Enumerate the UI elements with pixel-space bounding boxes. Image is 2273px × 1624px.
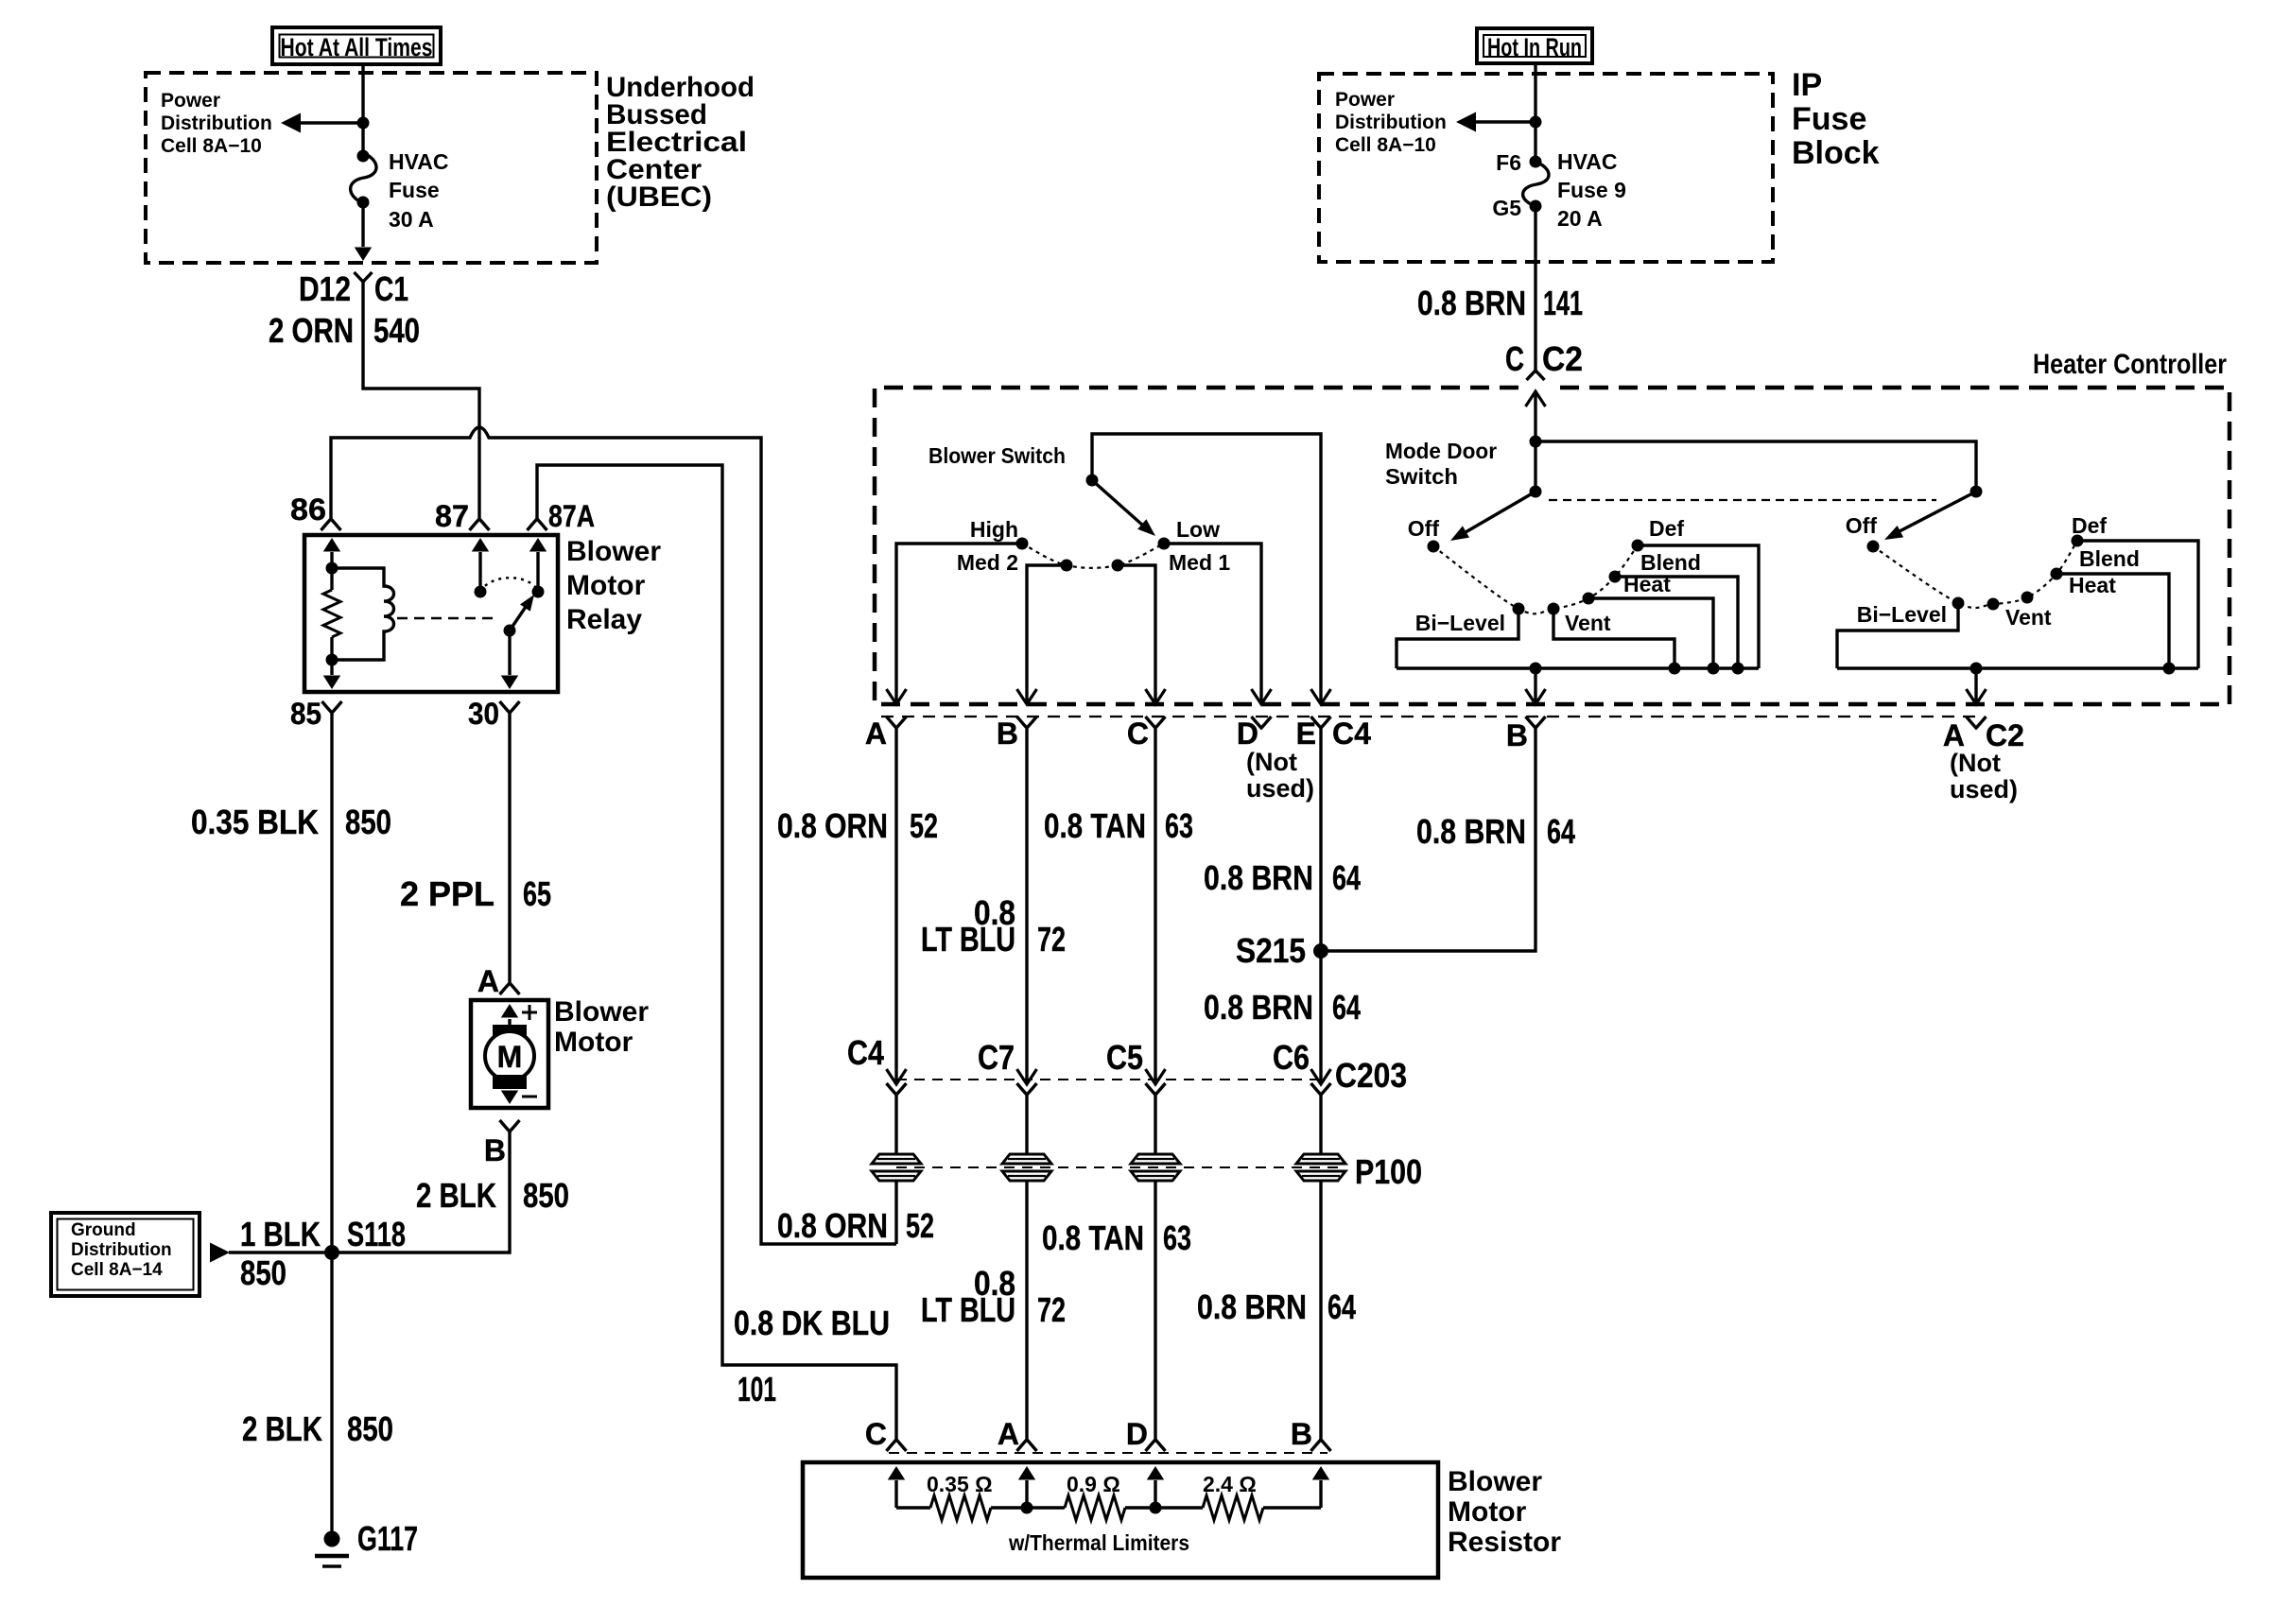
mode door switch 2 wiper arrow — [1900, 492, 1976, 531]
relay pin 30 wire — [508, 631, 511, 675]
fork: resistor pin C (DK BLU) — [887, 1440, 907, 1451]
svg-text:C2: C2 — [1542, 339, 1583, 378]
wire: Vent contact to bus (switch 1) — [1553, 609, 1674, 668]
svg-text:Off: Off — [1408, 516, 1440, 541]
heater controller dashed box — [875, 388, 2230, 704]
fork: relay pin 85 — [322, 701, 342, 713]
svg-text:C: C — [1127, 717, 1149, 751]
connector C4 dashed row — [881, 716, 1984, 717]
svg-text:Ground: Ground — [71, 1220, 136, 1240]
wire: BRN column E to C203 — [1319, 728, 1322, 1084]
svg-text:A: A — [477, 964, 499, 998]
wire: ORN 52 column A to C203 — [894, 728, 897, 1084]
svg-text:0.35 BLK: 0.35 BLK — [191, 803, 319, 841]
svg-text:85: 85 — [290, 697, 321, 731]
svg-text:Relay: Relay — [566, 604, 642, 635]
svg-text:72: 72 — [1037, 1290, 1066, 1329]
wire: col B below P100 to resistor pin A — [1025, 1182, 1028, 1440]
bus wire (switch 1) — [1397, 666, 1759, 669]
wire: Blend contact to bus (switch 2) — [2056, 574, 2169, 668]
svg-text:52: 52 — [906, 1206, 934, 1245]
svg-text:B: B — [1291, 1417, 1312, 1451]
wire: Bi-Level contact to bus (switch 2) — [1837, 603, 1958, 668]
svg-text:E: E — [1296, 717, 1316, 751]
resistor bus junction dots — [1021, 1502, 1033, 1514]
svg-text:D: D — [1237, 717, 1258, 751]
ground distribution box: Cell 8A-14 — [51, 1213, 200, 1296]
resistor 0.9 ohm — [1027, 1506, 1065, 1509]
label: IP Fuse Block — [1792, 67, 1880, 171]
svg-text:F6: F6 — [1496, 150, 1521, 175]
svg-text:B: B — [484, 1133, 506, 1167]
svg-text:63: 63 — [1165, 806, 1193, 845]
wire: Low contact to pin D — [1164, 544, 1261, 704]
svg-text:Fuse: Fuse — [1792, 101, 1866, 137]
svg-text:used): used) — [1246, 774, 1314, 803]
svg-text:2 BLK: 2 BLK — [416, 1176, 496, 1215]
svg-text:Distribution: Distribution — [161, 112, 272, 134]
svg-text:Low: Low — [1176, 517, 1220, 542]
svg-text:(Not: (Not — [1246, 748, 1297, 776]
svg-text:Heater Controller: Heater Controller — [2033, 349, 2227, 380]
motor minus sign — [522, 1096, 537, 1098]
junction dot — [1530, 116, 1542, 129]
svg-text:G5: G5 — [1492, 196, 1521, 220]
svg-text:D: D — [1126, 1417, 1148, 1451]
svg-text:Cell 8A−14: Cell 8A−14 — [71, 1260, 163, 1280]
relay pin 87 contact — [478, 552, 481, 592]
svg-text:Blower: Blower — [554, 996, 649, 1028]
fork: heater pin B (mode door) — [1526, 717, 1546, 728]
relay pin 85 internal arrow — [330, 660, 333, 675]
svg-text:0.8 BRN: 0.8 BRN — [1417, 284, 1526, 322]
fork: blower motor pin B — [500, 1120, 520, 1132]
svg-text:Hot In Run: Hot In Run — [1487, 33, 1582, 61]
svg-text:64: 64 — [1327, 1287, 1356, 1326]
wire: col A below P100 — [894, 1182, 897, 1244]
fork: heater pin A C2 (mode door) — [1967, 717, 1987, 728]
relay wiper — [510, 604, 528, 631]
svg-text:Power: Power — [1335, 89, 1395, 111]
arrow: to Power Distribution cell 8A-10 — [299, 121, 363, 124]
wire: run feed into IP fuse block — [1534, 63, 1536, 162]
wire: col C below P100 to resistor pin D — [1154, 1182, 1156, 1440]
text: 0.8 / LT BLU 72 (lower) — [921, 1264, 1066, 1329]
wire: PPL 65 from relay pin 30 to blower motor — [508, 713, 511, 983]
svg-text:72: 72 — [1037, 920, 1066, 959]
fork: heater pin A — [887, 717, 907, 728]
svg-text:High: High — [970, 517, 1018, 542]
mode door switch 2 contacts arc — [1873, 541, 2077, 608]
svg-text:B: B — [997, 717, 1018, 751]
svg-text:540: 540 — [373, 311, 420, 350]
svg-text:64: 64 — [1547, 812, 1575, 851]
fork: heater pin E — [1311, 717, 1331, 728]
svg-text:Resistor: Resistor — [1448, 1527, 1561, 1558]
svg-text:Switch: Switch — [1385, 464, 1458, 489]
svg-text:used): used) — [1950, 775, 2018, 803]
blower switch wiper arrow — [1092, 480, 1143, 526]
bus wire (switch 2) — [1837, 666, 2198, 669]
svg-text:64: 64 — [1332, 988, 1361, 1027]
P100 pellet col C — [1131, 1154, 1180, 1181]
svg-text:Blend: Blend — [2079, 546, 2140, 571]
label box: Hot In Run — [1477, 28, 1592, 63]
label: Underhood Bussed Electrical Center (UBEC) — [606, 72, 755, 213]
svg-text:Distribution: Distribution — [71, 1240, 172, 1260]
blower switch contacts arc — [1022, 544, 1164, 568]
wire: Med 2 contact to pin B — [1027, 565, 1067, 704]
label: Blower Motor Resistor — [1448, 1466, 1561, 1558]
junction dot coil top — [326, 562, 338, 575]
IP fuse block dashed box — [1319, 74, 1773, 262]
svg-text:0.8 TAN: 0.8 TAN — [1044, 806, 1146, 845]
motor internal arrow bottom — [501, 1091, 518, 1105]
svg-text:101: 101 — [737, 1370, 776, 1408]
mode door switch 1 wiper arrow — [1466, 492, 1536, 532]
P100 pellet col E — [1296, 1154, 1345, 1181]
motor brush bottom — [493, 1075, 527, 1089]
svg-text:1 BLK: 1 BLK — [240, 1215, 321, 1253]
fork: heater pin D — [1252, 717, 1272, 728]
svg-text:C4: C4 — [847, 1033, 884, 1072]
label: Blower Motor Relay — [566, 536, 661, 635]
fork: relay pin 87A — [528, 519, 547, 530]
svg-text:w/Thermal Limiters: w/Thermal Limiters — [1008, 1530, 1189, 1555]
svg-text:B: B — [1506, 718, 1528, 752]
arrow: to Power Distribution cell (IP) — [1474, 120, 1536, 123]
svg-text:C7: C7 — [978, 1038, 1015, 1077]
mode door switch 1 contacts arc — [1433, 545, 1638, 613]
wire: High contact to pin A — [896, 544, 1022, 704]
svg-text:P100: P100 — [1355, 1152, 1422, 1191]
bus junction dots (switch 2) — [1970, 663, 1983, 675]
svg-text:M: M — [497, 1040, 523, 1074]
svg-text:Motor: Motor — [554, 1027, 633, 1058]
svg-text:30 A: 30 A — [389, 207, 434, 232]
wire: battery feed into UBEC — [361, 64, 364, 153]
wire: TAN column C to C203 — [1154, 728, 1156, 1084]
wire: Def contact to bus (switch 1) — [1638, 545, 1759, 668]
svg-text:Def: Def — [2072, 513, 2107, 538]
relay coil suppression resistor — [323, 590, 340, 637]
svg-text:G117: G117 — [357, 1519, 418, 1558]
blower switch feed wire — [1092, 434, 1321, 704]
svg-text:IP: IP — [1792, 67, 1822, 103]
forks below C203 — [887, 1083, 907, 1095]
svg-text:0.35 Ω: 0.35 Ω — [927, 1472, 993, 1496]
svg-text:HVAC: HVAC — [389, 149, 448, 174]
fork: heater pin B — [1017, 717, 1037, 728]
wire: BRN 64 mode door pin B down to S215 — [1321, 728, 1536, 951]
svg-text:Hot At All Times: Hot At All Times — [281, 33, 433, 61]
relay contact dotted arc — [480, 578, 538, 592]
wire: switch 2 output to pin A — [1974, 668, 1977, 704]
svg-text:0.8 BRN: 0.8 BRN — [1416, 812, 1526, 851]
svg-text:52: 52 — [910, 806, 938, 845]
wire: Blend contact to bus (switch 1) — [1615, 577, 1738, 668]
text: 0.8 / LT BLU 72 (upper) — [921, 893, 1066, 959]
svg-text:LT BLU: LT BLU — [921, 920, 1015, 959]
svg-text:30: 30 — [468, 697, 499, 731]
svg-text:0.8 TAN: 0.8 TAN — [1042, 1218, 1144, 1257]
svg-text:A: A — [865, 717, 887, 751]
relay pin 86 internal arrow — [330, 552, 333, 568]
resistor internal arrows — [894, 1480, 897, 1508]
svg-text:Bi−Level: Bi−Level — [1415, 611, 1505, 635]
svg-text:C5: C5 — [1106, 1038, 1143, 1077]
mode door switch 1 contact dots — [1428, 541, 1440, 553]
svg-text:S215: S215 — [1236, 931, 1306, 970]
connector C2 fork (C) — [1527, 371, 1545, 380]
mode door switch 1 pivot — [1530, 486, 1542, 498]
svg-text:Fuse 9: Fuse 9 — [1557, 178, 1626, 202]
svg-text:Block: Block — [1792, 135, 1880, 171]
fork: relay pin 87 — [470, 519, 490, 530]
svg-text:63: 63 — [1163, 1218, 1191, 1257]
svg-text:Motor: Motor — [566, 570, 646, 601]
mechanical link dashed line — [1549, 499, 1936, 501]
svg-text:2.4 Ω: 2.4 Ω — [1203, 1472, 1257, 1496]
dashed link coil to contacts — [397, 617, 499, 620]
wire: switch 1 output to pin B — [1534, 668, 1536, 704]
svg-text:Bi−Level: Bi−Level — [1857, 602, 1947, 627]
svg-text:141: 141 — [1543, 284, 1583, 322]
svg-text:Vent: Vent — [1565, 611, 1611, 635]
svg-text:Fuse: Fuse — [389, 178, 440, 202]
arrow: from ground distribution cell into S118 wire — [229, 1251, 332, 1253]
wire: ORN 52 horizontal with hop, to relay pin 86 and down right side — [331, 427, 896, 1244]
svg-text:(UBEC): (UBEC) — [606, 181, 712, 213]
motor brush top — [493, 1025, 527, 1039]
svg-text:850: 850 — [523, 1176, 569, 1215]
motor circle M — [485, 1031, 534, 1080]
wire: ORN 540 from C1 to relay pin 87 — [363, 282, 479, 519]
svg-text:Med 1: Med 1 — [1169, 550, 1230, 575]
connector C1 fork (D12) — [355, 272, 373, 282]
svg-text:0.8 ORN: 0.8 ORN — [777, 1206, 888, 1245]
resistor 2.4 ohm — [1155, 1506, 1203, 1509]
relay coil — [332, 568, 394, 660]
junction dot heater feed — [1530, 436, 1542, 448]
svg-text:87: 87 — [435, 499, 469, 533]
wire: Heat contact to bus (switch 1) — [1588, 598, 1713, 668]
svg-text:0.8 BRN: 0.8 BRN — [1197, 1287, 1307, 1326]
svg-text:C4: C4 — [1332, 717, 1371, 751]
wire: BRN 141 from fuse to heater controller — [1534, 206, 1536, 371]
text: HVAC Fuse 30 A — [389, 149, 448, 232]
wire: BLK 850 from motor B to S118 — [332, 1132, 510, 1253]
connector C203 dashed row — [896, 1079, 1326, 1080]
svg-text:Blower: Blower — [566, 536, 661, 567]
text: Mode Door Switch — [1385, 439, 1497, 489]
svg-text:D12: D12 — [299, 269, 351, 308]
svg-text:Med 2: Med 2 — [957, 550, 1018, 575]
fuse: HVAC Fuse 30 A — [351, 153, 376, 203]
arrow into heater controller at C2 — [1534, 391, 1536, 441]
relay box: Blower Motor Relay — [304, 535, 558, 692]
svg-text:Cell 8A−10: Cell 8A−10 — [161, 135, 262, 157]
svg-text:A: A — [998, 1417, 1019, 1451]
svg-text:C1: C1 — [374, 269, 408, 308]
text: HVAC Fuse 9 20 A — [1557, 149, 1626, 231]
svg-text:C: C — [865, 1417, 887, 1451]
splice S215 — [1313, 943, 1328, 959]
relay pin 87A contact — [536, 552, 539, 592]
blower motor resistor box — [803, 1462, 1438, 1578]
bus junction dots (switch 1) — [1530, 663, 1542, 675]
svg-text:86: 86 — [290, 492, 326, 527]
svg-text:Power: Power — [161, 90, 220, 112]
wire: Bi-Level contact to bus (switch 1) — [1397, 609, 1518, 668]
P100 pellet col A — [872, 1154, 921, 1181]
svg-text:Heat: Heat — [2069, 573, 2116, 597]
svg-text:0.9 Ω: 0.9 Ω — [1067, 1472, 1120, 1496]
blower switch pivot — [1086, 475, 1099, 487]
svg-text:87A: 87A — [548, 499, 595, 533]
splice S118 — [324, 1245, 339, 1260]
junction dot coil bottom — [326, 654, 338, 666]
svg-text:C2: C2 — [1986, 718, 2024, 752]
label box: Hot At All Times — [272, 27, 441, 64]
svg-text:0.8 BRN: 0.8 BRN — [1204, 858, 1313, 897]
svg-text:850: 850 — [345, 803, 391, 841]
svg-text:0.8 DK BLU: 0.8 DK BLU — [734, 1304, 890, 1342]
UBEC dashed box — [146, 73, 597, 263]
connector arrows into C203 — [887, 1069, 907, 1084]
fork: heater pin C — [1146, 717, 1166, 728]
ground G117 — [324, 1531, 340, 1547]
wire: col E below P100 to resistor pin B — [1319, 1182, 1322, 1440]
wire: Med 1 contact to pin C — [1118, 565, 1155, 704]
junction dot — [357, 117, 370, 130]
svg-text:(Not: (Not — [1950, 749, 2001, 777]
text: Power Distribution Cell 8A-10 (IP) — [1335, 89, 1447, 156]
wire: LT BLU column B to C203 — [1025, 728, 1028, 1084]
svg-text:0.8 BRN: 0.8 BRN — [1204, 988, 1313, 1027]
wire: BLK 850 from pin 85 to G117 — [330, 713, 333, 1539]
svg-text:0.8 ORN: 0.8 ORN — [777, 806, 888, 845]
svg-text:Vent: Vent — [2005, 605, 2052, 630]
P100 pellet col B — [1002, 1154, 1051, 1181]
svg-text:A: A — [1943, 718, 1965, 752]
svg-text:Distribution: Distribution — [1335, 112, 1447, 133]
svg-text:Motor: Motor — [1448, 1496, 1527, 1528]
svg-text:850: 850 — [240, 1253, 286, 1292]
svg-text:64: 64 — [1332, 858, 1361, 897]
svg-text:C6: C6 — [1273, 1038, 1310, 1077]
motor internal arrow top — [508, 1019, 511, 1027]
wire: Def contact to bus (switch 2) — [2077, 541, 2198, 668]
svg-text:C: C — [1505, 339, 1524, 378]
svg-text:LT BLU: LT BLU — [921, 1290, 1015, 1329]
svg-text:C203: C203 — [1335, 1056, 1407, 1095]
wire: DK BLU from relay pin 87A down to resistor pin C — [537, 465, 896, 1440]
fuse: HVAC Fuse 9 20 A — [1523, 162, 1549, 206]
mode door switch 2 pivot — [1970, 486, 1983, 498]
svg-text:Def: Def — [1649, 516, 1684, 541]
wire: feed to both mode door switch wipers — [1536, 441, 1976, 492]
fork: relay pin 30 — [500, 701, 520, 713]
svg-text:S118: S118 — [347, 1215, 406, 1253]
fork: relay pin 86 — [321, 519, 341, 530]
svg-text:Mode Door: Mode Door — [1385, 439, 1497, 463]
svg-text:Off: Off — [1846, 513, 1878, 538]
resistor 0.35 ohm — [896, 1506, 930, 1509]
svg-text:Cell 8A−10: Cell 8A−10 — [1335, 134, 1436, 156]
svg-text:20 A: 20 A — [1557, 206, 1603, 231]
fork: blower motor pin A — [500, 983, 520, 994]
svg-text:2 BLK: 2 BLK — [242, 1409, 322, 1448]
wire: fuse output with arrow at UBEC edge — [361, 203, 364, 247]
svg-text:HVAC: HVAC — [1557, 149, 1617, 174]
wires C203 to P100 — [894, 1095, 897, 1154]
label: Blower Motor — [554, 996, 649, 1058]
svg-text:2 PPL: 2 PPL — [400, 874, 495, 913]
resistor connector dashed row — [889, 1452, 1327, 1454]
mode door switch 2 contact dots — [1867, 541, 1880, 553]
blower motor box — [471, 1000, 548, 1108]
svg-text:850: 850 — [347, 1409, 393, 1448]
motor plus sign — [522, 1011, 537, 1014]
svg-text:Blower: Blower — [1448, 1466, 1542, 1497]
svg-text:65: 65 — [523, 874, 551, 913]
svg-text:2 ORN: 2 ORN — [269, 311, 354, 350]
svg-text:Blower Switch: Blower Switch — [928, 443, 1066, 468]
P100 dashed row — [896, 1166, 1343, 1168]
text: Power Distribution Cell 8A-10 (UBEC) — [161, 90, 272, 157]
blower switch contact dots — [1016, 538, 1029, 550]
